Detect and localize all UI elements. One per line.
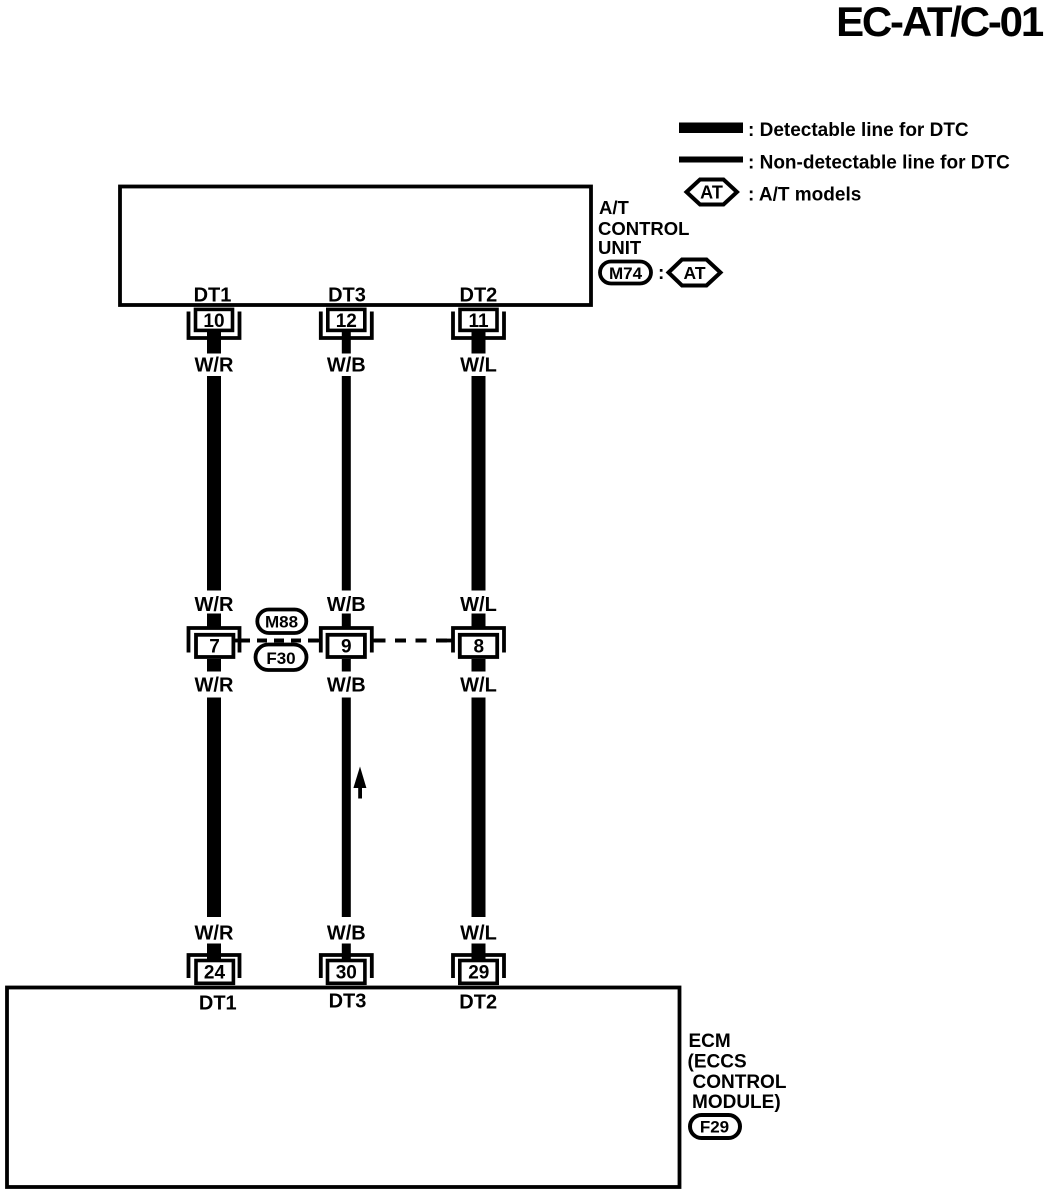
terminal label DT2	[460, 285, 498, 307]
wire W/R lower segment	[207, 698, 221, 918]
connector label M74	[600, 262, 664, 285]
svg-text:(ECCS: (ECCS	[688, 1051, 747, 1072]
svg-text:AT: AT	[700, 183, 723, 203]
svg-text:CONTROL: CONTROL	[598, 218, 689, 239]
svg-text:F29: F29	[700, 1118, 729, 1137]
wire W/L lower segment	[472, 698, 486, 918]
terminal label DT3 bottom	[329, 991, 367, 1013]
A/T control unit box	[120, 187, 591, 306]
svg-text:7: 7	[209, 637, 220, 658]
splice pin 7	[189, 614, 240, 672]
wire label W/R row1	[195, 355, 234, 377]
dashed link 9 to 8	[375, 639, 453, 643]
svg-text:CONTROL: CONTROL	[693, 1072, 787, 1093]
svg-text:: Non-detectable line for DTC: : Non-detectable line for DTC	[748, 153, 1010, 174]
legend non-detectable text	[748, 153, 1010, 174]
svg-text:12: 12	[336, 311, 357, 332]
wire label W/L row3	[460, 675, 497, 697]
wire label W/L row1	[460, 355, 497, 377]
terminal label DT3	[328, 285, 366, 307]
svg-text:MODULE): MODULE)	[692, 1092, 781, 1113]
svg-text:DT3: DT3	[328, 285, 366, 307]
svg-text:11: 11	[468, 311, 489, 332]
svg-text:DT3: DT3	[329, 991, 367, 1013]
ECM box	[7, 988, 680, 1188]
ECM label	[688, 1031, 787, 1113]
A/T control unit label	[598, 197, 689, 258]
svg-text:DT1: DT1	[194, 285, 232, 307]
svg-text:W/R: W/R	[195, 675, 234, 697]
wire W/L upper segment	[472, 376, 486, 591]
svg-text:W/L: W/L	[460, 923, 497, 945]
tick at pin 9 right	[372, 639, 380, 643]
svg-text:W/L: W/L	[460, 675, 497, 697]
tick at pin 8 left	[445, 639, 453, 643]
svg-text:W/B: W/B	[327, 675, 366, 697]
pin 12 connector	[321, 309, 372, 353]
terminal label DT2 bottom	[459, 992, 497, 1014]
svg-text:A/T: A/T	[599, 197, 630, 218]
svg-text:UNIT: UNIT	[598, 237, 642, 258]
svg-text:W/B: W/B	[327, 355, 366, 377]
svg-text:W/L: W/L	[460, 355, 497, 377]
terminal label DT1	[194, 285, 232, 307]
AT hexagon at M74	[669, 260, 721, 286]
wire label W/R row3	[195, 675, 234, 697]
dashed link 7 to 9	[240, 639, 320, 643]
tick at pin 9 left	[315, 639, 321, 643]
connector label F30	[256, 645, 307, 671]
wire label W/B row1	[327, 355, 366, 377]
svg-text:W/L: W/L	[460, 594, 497, 616]
legend AT hexagon	[687, 180, 738, 205]
svg-text:AT: AT	[683, 263, 705, 283]
wire label W/R row2	[195, 594, 234, 616]
svg-text:DT2: DT2	[460, 285, 498, 307]
wire label W/L row2	[460, 594, 497, 616]
svg-text:ECM: ECM	[689, 1031, 731, 1052]
svg-text:: A/T models: : A/T models	[748, 185, 861, 206]
pin 30 connector	[321, 944, 372, 984]
connector label M88	[257, 610, 306, 634]
svg-text:M88: M88	[265, 613, 298, 632]
svg-text:F30: F30	[266, 649, 295, 668]
svg-text:W/B: W/B	[327, 594, 366, 616]
wire W/B lower segment	[342, 698, 351, 918]
terminal label DT1 bottom	[199, 993, 237, 1015]
flow arrow on W/B wire	[353, 767, 366, 799]
title EC-AT/C-01	[836, 0, 1044, 45]
wire W/R upper segment	[207, 376, 221, 591]
wire label W/B row4	[327, 923, 366, 945]
svg-text:W/B: W/B	[327, 923, 366, 945]
svg-text:29: 29	[468, 963, 489, 984]
wire label W/R row4	[195, 923, 234, 945]
wire label W/L row4	[460, 923, 497, 945]
svg-text:10: 10	[203, 311, 224, 332]
svg-text:DT1: DT1	[199, 993, 237, 1015]
wire W/B upper segment	[342, 376, 351, 591]
svg-text:EC-AT/C-01: EC-AT/C-01	[836, 0, 1044, 45]
splice pin 8	[453, 614, 504, 672]
svg-text:30: 30	[336, 963, 357, 984]
legend detectable line sample	[679, 123, 743, 134]
connector label F29	[690, 1115, 740, 1138]
svg-text:8: 8	[474, 637, 485, 658]
pin 24 connector	[189, 944, 240, 984]
svg-text:W/R: W/R	[195, 355, 234, 377]
wire label W/B row3	[327, 675, 366, 697]
tick at pin 7 right	[235, 639, 248, 643]
wire label W/B row2	[327, 594, 366, 616]
svg-text:DT2: DT2	[459, 992, 497, 1014]
svg-text:9: 9	[341, 637, 352, 658]
pin 29 connector	[453, 944, 504, 984]
svg-text:: Detectable line for DTC: : Detectable line for DTC	[748, 120, 969, 141]
svg-text:W/R: W/R	[195, 594, 234, 616]
legend AT models text	[748, 185, 861, 206]
svg-text:24: 24	[204, 963, 226, 984]
svg-text::: :	[658, 263, 664, 284]
svg-text:W/R: W/R	[195, 923, 234, 945]
splice pin 9	[321, 614, 372, 672]
legend detectable text	[748, 120, 969, 141]
pin 10 connector	[189, 309, 240, 353]
svg-text:M74: M74	[609, 264, 643, 283]
pin 11 connector	[453, 309, 504, 353]
legend non-detectable line sample	[679, 157, 743, 163]
